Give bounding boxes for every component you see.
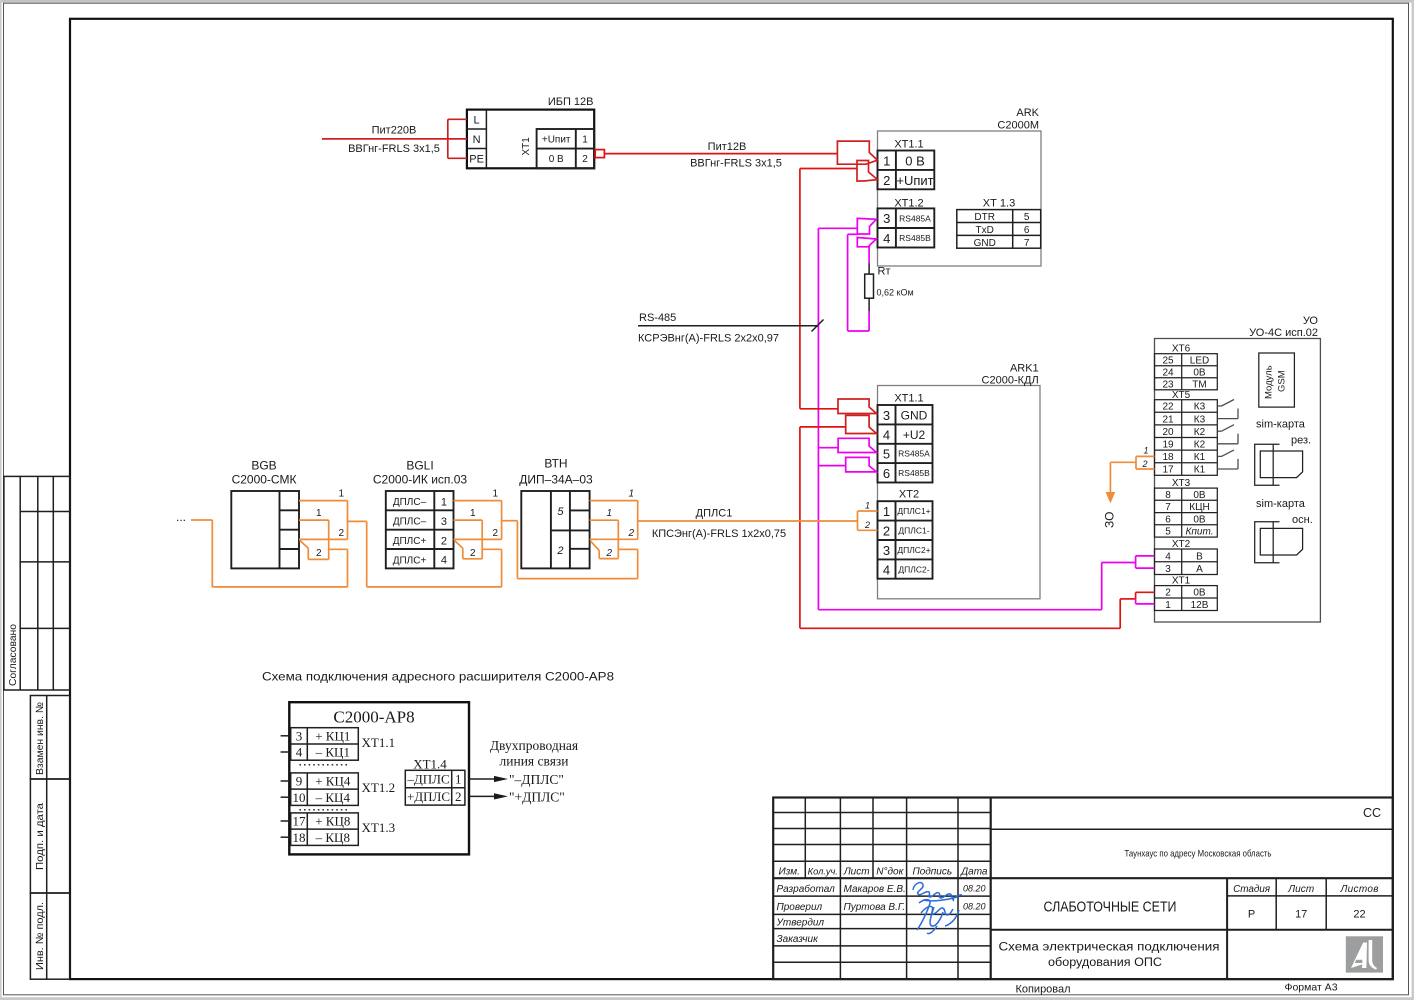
svg-text:ХТ1: ХТ1: [1172, 576, 1191, 587]
wire tag to ARK1 pin 3 (red flag): [838, 399, 877, 414]
expander С2000-АР8 body: [289, 702, 469, 854]
svg-text:21: 21: [1162, 414, 1174, 425]
svg-text:осн.: осн.: [1292, 514, 1313, 526]
svg-text:12В: 12В: [1191, 600, 1209, 611]
wire +12V to ARK1 pin 4 and down to УО: [800, 427, 1136, 628]
svg-text:– КЦ8: – КЦ8: [315, 830, 350, 845]
АР8 table XT1.2: [291, 773, 359, 806]
svg-text:Rт: Rт: [878, 266, 891, 278]
svg-text:10: 10: [293, 790, 306, 805]
svg-text:2: 2: [556, 545, 563, 557]
wire BGB to BGLI: [348, 521, 502, 587]
wire Пит12В: [604, 153, 837, 155]
svg-text:Схема электрическая подключени: Схема электрическая подключения: [999, 942, 1220, 954]
relay contact К2: [1217, 425, 1238, 444]
svg-text:1: 1: [865, 500, 870, 510]
sidebar box Взамен инв. №: [30, 696, 69, 780]
RS-485 leader line: [638, 325, 818, 327]
svg-text:ХТ2: ХТ2: [899, 489, 919, 501]
svg-text:2: 2: [883, 524, 890, 539]
svg-text:ДПЛС–: ДПЛС–: [393, 497, 427, 508]
relay contact К1: [1217, 450, 1238, 469]
svg-text:1: 1: [455, 772, 462, 787]
svg-text:1: 1: [606, 508, 612, 519]
svg-text:СЛАБОТОЧНЫЕ СЕТИ: СЛАБОТОЧНЫЕ СЕТИ: [1044, 900, 1177, 916]
svg-text:ВВГнг-FRLS 3х1,5: ВВГнг-FRLS 3х1,5: [348, 143, 440, 155]
ИБП output connector: [595, 150, 604, 158]
wire RS485 bracket at УО XT2: [1136, 556, 1155, 568]
svg-text:ХТ6: ХТ6: [1172, 344, 1191, 355]
title block grid: [773, 798, 1393, 980]
resistor Rt leads: [868, 263, 870, 311]
svg-text:1: 1: [883, 504, 890, 519]
svg-text:1: 1: [628, 489, 634, 500]
ARK1 table XT1.1: [878, 405, 933, 483]
svg-text:2: 2: [883, 173, 890, 188]
svg-text:рез.: рез.: [1291, 435, 1311, 447]
wire ДПЛС1 line from BTH to ARK1 XT2: [638, 520, 858, 522]
svg-text:20: 20: [1162, 427, 1174, 438]
wire tag to ARK pin 4 (magenta flag): [857, 238, 876, 247]
svg-text:Подпись: Подпись: [912, 866, 952, 877]
svg-text:2: 2: [582, 154, 588, 165]
svg-text:7: 7: [1024, 238, 1030, 249]
RS-485 slash mark: [812, 320, 824, 332]
svg-text:2: 2: [470, 548, 476, 559]
svg-text:Копировал: Копировал: [1015, 983, 1070, 995]
wire RS485A from ARK pin 3: [818, 228, 857, 609]
svg-text:ДПЛС1+: ДПЛС1+: [897, 506, 930, 516]
svg-text:КЦН: КЦН: [1189, 502, 1209, 513]
svg-text:С2000-АР8: С2000-АР8: [333, 708, 414, 727]
svg-text:К1: К1: [1194, 465, 1206, 476]
svg-text:0 В: 0 В: [549, 154, 564, 165]
title block header row labels: [779, 866, 988, 877]
svg-text:ВТН: ВТН: [544, 457, 567, 471]
svg-text:22: 22: [1162, 402, 1174, 413]
svg-text:4: 4: [883, 427, 890, 442]
svg-text:4: 4: [883, 231, 890, 246]
svg-text:Лист: Лист: [1287, 884, 1314, 895]
svg-text:Изм.: Изм.: [779, 866, 800, 877]
wire ДПЛС loop into BGLI: [454, 520, 502, 587]
svg-text:+Uпит: +Uпит: [896, 173, 933, 188]
svg-text:4: 4: [883, 562, 890, 577]
svg-text:3: 3: [441, 516, 447, 528]
detector BGB С2000-СМК body: [231, 491, 299, 568]
svg-text:ВВГнг-FRLS 3х1,5: ВВГнг-FRLS 3х1,5: [690, 157, 782, 169]
svg-text:ХТ1.1: ХТ1.1: [894, 139, 923, 151]
svg-text:ARK: ARK: [1016, 107, 1039, 119]
svg-text:0В: 0В: [1193, 490, 1206, 501]
svg-text:5: 5: [1165, 527, 1171, 538]
dotted divider 1: [299, 764, 348, 766]
svg-text:Схема подключения адресного ра: Схема подключения адресного расширителя …: [262, 670, 614, 684]
svg-text:1: 1: [316, 508, 322, 519]
УО table XT3: [1155, 488, 1218, 537]
sim card 2 (main): [1255, 522, 1303, 563]
wire BGB terminal jumper: [299, 501, 348, 540]
svg-text:С2000М: С2000М: [997, 120, 1039, 132]
svg-text:8: 8: [1165, 490, 1171, 501]
svg-text:Р: Р: [1248, 908, 1255, 920]
svg-text:N°док: N°док: [876, 866, 904, 877]
АР8 input stubs: [281, 736, 291, 837]
svg-text:Пит220В: Пит220В: [372, 125, 417, 137]
svg-text:С2000-КДЛ: С2000-КДЛ: [982, 375, 1039, 387]
svg-text:ХТ2: ХТ2: [1172, 539, 1191, 550]
svg-text:2: 2: [316, 548, 322, 559]
svg-text:ДПЛС+: ДПЛС+: [393, 536, 427, 547]
relay contact К3: [1217, 400, 1238, 419]
svg-text:2: 2: [1165, 588, 1171, 599]
wire 0V to ARK1 pin 3: [800, 408, 838, 410]
svg-text:Формат А3: Формат А3: [1284, 982, 1337, 994]
wire ДПЛС loop into BGB: [191, 520, 348, 587]
wire tag to ARK1 pin 6 (magenta flag): [846, 457, 877, 472]
svg-text:КСРЭВнг(А)-FRLS 2х2х0,97: КСРЭВнг(А)-FRLS 2х2х0,97: [638, 333, 779, 345]
svg-text:5: 5: [883, 447, 890, 462]
wire BGB tap loop: [300, 540, 329, 559]
svg-text:–ДПЛС: –ДПЛС: [406, 772, 449, 787]
svg-text:+ КЦ1: + КЦ1: [315, 728, 350, 743]
svg-text:– КЦ1: – КЦ1: [315, 745, 350, 760]
svg-text:19: 19: [1162, 440, 1174, 451]
svg-text:5: 5: [1024, 212, 1030, 223]
svg-text:4: 4: [296, 745, 303, 760]
svg-text:ДПЛС1: ДПЛС1: [696, 508, 733, 520]
svg-text:GND: GND: [974, 238, 996, 249]
dotted divider 2: [299, 809, 348, 811]
svg-text:Кпит.: Кпит.: [1186, 527, 1214, 538]
svg-text:УО: УО: [1303, 315, 1319, 327]
svg-text:TxD: TxD: [976, 225, 994, 236]
svg-text:ДПЛС–: ДПЛС–: [393, 517, 427, 528]
svg-text:"–ДПЛС": "–ДПЛС": [509, 772, 564, 787]
logo АЛ: [1346, 936, 1383, 972]
svg-text:3: 3: [1165, 564, 1171, 575]
svg-text:Согласовано: Согласовано: [8, 624, 19, 686]
svg-text:С2000-ИК исп.03: С2000-ИК исп.03: [373, 473, 468, 487]
svg-text:2: 2: [605, 548, 612, 559]
detector BTH ДИП-34А-03 body: [521, 491, 589, 568]
svg-text:ДПЛС+: ДПЛС+: [393, 555, 427, 566]
svg-text:PE: PE: [469, 154, 484, 166]
svg-text:ХТ 1.3: ХТ 1.3: [983, 198, 1015, 210]
svg-text:ХТ1.1: ХТ1.1: [894, 393, 923, 405]
detector BGLI С2000-ИК исп.03 table: [386, 491, 454, 568]
svg-text:22: 22: [1353, 908, 1365, 920]
svg-text:А: А: [1196, 564, 1203, 575]
wire BTH tap loop: [590, 541, 618, 559]
svg-text:КПСЭнг(А)-FRLS 1х2х0,75: КПСЭнг(А)-FRLS 1х2х0,75: [652, 528, 786, 540]
arrow -ДПЛС: [469, 778, 497, 780]
svg-text:Модуль: Модуль: [1264, 365, 1275, 399]
svg-text:2: 2: [455, 789, 462, 804]
svg-text:Подп. и дата: Подп. и дата: [34, 803, 46, 870]
АР8 table XT1.4: [405, 770, 465, 805]
arrow +ДПЛС: [469, 795, 497, 797]
svg-text:К3: К3: [1194, 414, 1206, 425]
svg-text:+Uпит: +Uпит: [542, 135, 571, 146]
wire tag to ARK pin 3 (magenta flag): [857, 218, 876, 234]
svg-text:...: ...: [176, 510, 186, 524]
svg-text:1: 1: [441, 497, 447, 509]
svg-text:1: 1: [1143, 445, 1148, 455]
svg-text:Утвердил: Утвердил: [776, 918, 825, 929]
svg-text:К1: К1: [1194, 452, 1206, 463]
svg-text:3: 3: [883, 408, 890, 423]
svg-text:6: 6: [883, 466, 890, 481]
svg-text:"+ДПЛС": "+ДПЛС": [509, 790, 565, 805]
svg-text:3: 3: [883, 211, 890, 226]
svg-text:RS-485: RS-485: [639, 312, 676, 324]
svg-text:Инв. № подл.: Инв. № подл.: [34, 902, 46, 970]
sim card 1 (reserve): [1255, 444, 1303, 485]
svg-text:sim-карта: sim-карта: [1256, 419, 1306, 431]
svg-text:RS485A: RS485A: [898, 449, 930, 459]
title block row Разработал: [777, 883, 986, 895]
svg-text:В: В: [1196, 551, 1203, 562]
svg-text:Дата: Дата: [960, 866, 988, 877]
module GSM box: [1259, 353, 1295, 407]
svg-text:GSM: GSM: [1277, 370, 1288, 392]
svg-text:3: 3: [296, 728, 303, 743]
svg-text:4: 4: [1165, 551, 1171, 562]
svg-text:ХТ1.2: ХТ1.2: [362, 780, 396, 795]
svg-text:УО-4С исп.02: УО-4С исп.02: [1249, 327, 1318, 339]
svg-text:Макаров Е.В.: Макаров Е.В.: [844, 884, 906, 895]
svg-text:1: 1: [338, 489, 344, 500]
svg-text:ARK1: ARK1: [1010, 363, 1039, 375]
wire tag to ARK pin 2 (red flag): [857, 161, 878, 182]
svg-text:23: 23: [1162, 379, 1174, 390]
svg-text:L: L: [474, 115, 480, 127]
svg-text:17: 17: [293, 814, 307, 829]
АР8 table XT1.3: [291, 813, 359, 846]
power supply ИБП 12В: [467, 110, 594, 169]
wire BGLI tap loop: [454, 540, 482, 559]
svg-text:18: 18: [293, 830, 306, 845]
resistor Rt: [865, 274, 874, 298]
УО table XT1: [1155, 586, 1218, 611]
АР8 table XT1.1: [291, 728, 359, 761]
svg-text:3: 3: [883, 543, 890, 558]
svg-text:+ДПЛС: +ДПЛС: [407, 789, 450, 804]
svg-text:08.20: 08.20: [963, 902, 986, 912]
wire power bracket at УО XT1: [1136, 592, 1155, 599]
arrow ЗО: [1106, 492, 1116, 504]
wire Rt to RS485A link: [848, 234, 870, 331]
svg-text:XT1: XT1: [521, 137, 532, 156]
УО table XT5: [1155, 400, 1218, 476]
svg-text:Пуртова В.Г.: Пуртова В.Г.: [844, 902, 906, 913]
svg-text:1: 1: [1165, 600, 1171, 611]
ARK table XT1.1: [878, 151, 935, 190]
svg-text:1: 1: [470, 508, 476, 519]
svg-text:ИБП 12В: ИБП 12В: [548, 96, 594, 108]
svg-text:ДПЛС2-: ДПЛС2-: [898, 564, 929, 574]
svg-text:4: 4: [441, 555, 447, 567]
panel ARK С2000М body: [878, 131, 1042, 266]
title block Стадия/Лист/Листов header: [1233, 884, 1378, 895]
svg-text:ТМ: ТМ: [1192, 379, 1206, 390]
svg-text:Взамен инв. №: Взамен инв. №: [34, 702, 46, 775]
svg-text:25: 25: [1162, 355, 1174, 366]
svg-text:0В: 0В: [1193, 588, 1206, 599]
signature Пуртова (blue): [917, 900, 959, 934]
svg-text:18: 18: [1162, 452, 1174, 463]
wire branch to ARK pin 2: [800, 169, 857, 409]
svg-text:0В: 0В: [1193, 367, 1206, 378]
wire RS485B to ARK1 pin 6: [818, 465, 845, 467]
title block row Проверил: [777, 902, 986, 913]
ARK table XT1.2: [878, 208, 935, 247]
svg-text:LED: LED: [1190, 355, 1209, 366]
wire Пит220В input: [322, 119, 467, 158]
svg-text:RS485A: RS485A: [899, 214, 931, 224]
svg-text:ХТ1.3: ХТ1.3: [362, 820, 396, 835]
svg-text:2: 2: [1141, 459, 1147, 469]
panel ARK1 С2000-КДЛ body: [878, 386, 1041, 599]
svg-text:Лист: Лист: [843, 866, 870, 877]
svg-text:0,62 кОм: 0,62 кОм: [877, 288, 914, 298]
svg-text:9: 9: [296, 774, 303, 789]
sidebar approval table: [4, 476, 70, 690]
svg-text:Пит12В: Пит12В: [708, 141, 747, 153]
svg-text:+ КЦ4: + КЦ4: [315, 774, 351, 789]
svg-text:ДПЛС2+: ДПЛС2+: [897, 545, 930, 555]
svg-text:ДПЛС1-: ДПЛС1-: [898, 526, 929, 536]
signature Макаров (blue): [913, 883, 962, 901]
svg-text:RS485B: RS485B: [898, 468, 930, 478]
svg-text:17: 17: [1162, 465, 1174, 476]
svg-text:К2: К2: [1194, 440, 1206, 451]
svg-text:7: 7: [1165, 502, 1171, 513]
УО table XT6: [1155, 354, 1218, 390]
svg-text:Заказчик: Заказчик: [777, 934, 820, 945]
svg-text:1: 1: [582, 135, 588, 146]
svg-text:BGB: BGB: [251, 459, 276, 473]
ARK1 table XT2: [878, 501, 933, 579]
svg-text:Разработал: Разработал: [777, 883, 836, 895]
svg-text:Двухпроводная: Двухпроводная: [490, 738, 578, 753]
svg-text:Стадия: Стадия: [1233, 884, 1271, 895]
svg-text:2: 2: [627, 528, 634, 539]
svg-text:DTR: DTR: [974, 212, 995, 223]
sidebar box Инв. № подл.: [30, 893, 69, 979]
wire BTH terminal jumper: [590, 501, 638, 540]
svg-text:+U2: +U2: [903, 428, 926, 442]
svg-text:Проверил: Проверил: [777, 902, 823, 913]
svg-text:1: 1: [883, 153, 890, 168]
svg-text:К2: К2: [1194, 427, 1206, 438]
svg-text:GND: GND: [901, 408, 928, 422]
svg-text:0 В: 0 В: [905, 153, 925, 168]
sidebar box Подп. и дата: [30, 779, 69, 893]
svg-text:sim-карта: sim-карта: [1256, 498, 1306, 510]
device УО УО-4С исп.02 body: [1155, 339, 1321, 623]
svg-text:ХТ1.1: ХТ1.1: [362, 735, 396, 750]
title block sheet title: [999, 942, 1220, 970]
svg-text:К3: К3: [1194, 402, 1206, 413]
wire RS485A to ARK1 pin 5: [818, 447, 838, 449]
svg-text:ХТ1.4: ХТ1.4: [413, 757, 447, 772]
svg-text:RS485B: RS485B: [899, 233, 931, 243]
wire BGLI to BTH: [502, 521, 638, 579]
svg-text:17: 17: [1295, 908, 1307, 920]
ДПЛС1 branch to pins 1,2: [858, 511, 878, 530]
svg-text:оборудования ОПС: оборудования ОПС: [1048, 957, 1162, 969]
wire tag to ARK pin 1 (red flag): [837, 141, 877, 164]
ARK table XT1.3: [957, 210, 1041, 249]
svg-text:ДИП–34А–03: ДИП–34А–03: [519, 473, 593, 487]
svg-text:линия связи: линия связи: [500, 754, 569, 769]
svg-text:2: 2: [492, 528, 498, 539]
svg-text:BGLI: BGLI: [406, 459, 433, 473]
wire RS485 pair down to УО: [818, 563, 1135, 610]
svg-text:– КЦ4: – КЦ4: [315, 790, 351, 805]
svg-text:2: 2: [338, 528, 344, 539]
wire tag to ARK1 pin 4 (red flag): [846, 415, 877, 433]
svg-text:0В: 0В: [1193, 514, 1206, 525]
svg-text:ЗО: ЗО: [1103, 512, 1117, 528]
svg-text:1: 1: [492, 489, 498, 500]
wire ДПЛС loop into BTH: [590, 520, 638, 578]
svg-text:6: 6: [1024, 225, 1030, 236]
wire BGLI terminal jumper: [454, 501, 502, 540]
svg-text:08.20: 08.20: [963, 884, 986, 894]
wire tag to ARK1 pin 5 (magenta flag): [838, 438, 876, 452]
svg-text:N: N: [473, 134, 481, 146]
УО table XT2: [1155, 549, 1218, 575]
svg-text:+ КЦ8: + КЦ8: [315, 814, 350, 829]
wire ЗО output bracket at XT5: [1110, 456, 1154, 492]
svg-text:5: 5: [557, 506, 564, 518]
svg-text:2: 2: [864, 520, 870, 530]
svg-text:СС: СС: [1363, 806, 1381, 820]
svg-text:С2000-СМК: С2000-СМК: [232, 473, 297, 487]
ИБП output table: [537, 129, 595, 168]
svg-text:6: 6: [1165, 514, 1171, 525]
svg-text:Кол.уч.: Кол.уч.: [808, 866, 838, 876]
svg-text:Листов: Листов: [1340, 884, 1379, 895]
svg-text:2: 2: [441, 535, 447, 547]
svg-text:24: 24: [1162, 367, 1174, 378]
svg-text:Таунхаус по адресу Московская: Таунхаус по адресу Московская область: [1125, 849, 1272, 859]
title block stage/sheet values: [1248, 908, 1366, 920]
